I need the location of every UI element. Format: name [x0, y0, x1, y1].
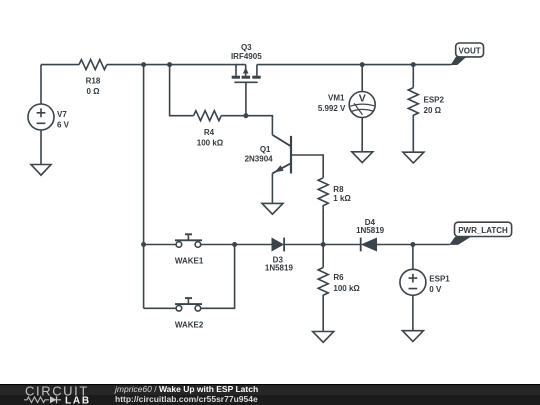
svg-text:V: V — [359, 92, 366, 104]
resistor R8 — [318, 178, 328, 209]
wire VM1 top lead — [361, 65, 363, 92]
wire ESP2 top lead — [412, 65, 414, 88]
junction node VM1 — [360, 62, 365, 67]
ground — [403, 152, 424, 163]
wire junction to D4 — [323, 244, 361, 246]
svg-text:LAB: LAB — [65, 395, 91, 405]
ground — [262, 203, 283, 214]
svg-text:V7: V7 — [57, 110, 67, 119]
wire D4 to ESP1 junction — [377, 244, 450, 246]
svg-text:100 kΩ: 100 kΩ — [333, 284, 360, 293]
wire R4 branch vertical — [170, 65, 194, 116]
wire to D3 — [235, 244, 272, 246]
svg-text:0 Ω: 0 Ω — [86, 87, 100, 96]
svg-text:2N3904: 2N3904 — [245, 155, 274, 164]
svg-text:VOUT: VOUT — [458, 47, 480, 56]
wire VM1 bottom lead — [361, 118, 363, 152]
wire ESP2 bottom lead — [412, 119, 414, 153]
node VOUT flag — [451, 43, 484, 65]
svg-text:R4: R4 — [204, 128, 215, 137]
junction node at 169.6 — [167, 62, 172, 67]
svg-text:IRF4905: IRF4905 — [231, 52, 262, 61]
voltage source V7 — [28, 104, 54, 130]
wire R4 right lead — [221, 115, 246, 117]
junction node gate/R4 — [243, 113, 248, 118]
footer bar — [0, 384, 540, 405]
svg-text:100 kΩ: 100 kΩ — [197, 139, 224, 148]
svg-text:ESP2: ESP2 — [424, 95, 445, 104]
wire R6 bottom lead — [322, 297, 324, 332]
svg-text:1N5819: 1N5819 — [265, 264, 294, 273]
diode D4 — [356, 218, 385, 252]
wire V7 top lead — [40, 65, 42, 104]
wire top rail left — [41, 64, 79, 66]
svg-text:R6: R6 — [333, 273, 344, 282]
svg-text:Q3: Q3 — [241, 43, 252, 52]
switch WAKE2 — [144, 298, 204, 329]
resistor ESP2 — [408, 88, 418, 119]
svg-text:R18: R18 — [86, 76, 101, 85]
svg-text:VM1: VM1 — [328, 93, 345, 102]
svg-text:Q1: Q1 — [260, 145, 271, 154]
wire R6 top lead — [322, 245, 324, 268]
svg-text:WAKE2: WAKE2 — [175, 320, 204, 329]
wire R8 bottom lead — [322, 209, 324, 245]
resistor R18 — [79, 60, 107, 70]
svg-text:R8: R8 — [333, 185, 344, 194]
junction node R8/R6/diodes — [321, 242, 326, 247]
svg-text:20 Ω: 20 Ω — [424, 106, 442, 115]
junction node ESP1 — [410, 242, 415, 247]
wire Q3 gate lead — [245, 82, 247, 115]
junction node WAKE1 right — [232, 242, 237, 247]
ground — [31, 165, 51, 176]
svg-text:WAKE1: WAKE1 — [175, 257, 204, 266]
switch WAKE1 — [144, 234, 235, 265]
voltage source ESP1 — [400, 269, 426, 295]
mosfet Q3 — [231, 43, 262, 83]
wire ESP1 top lead — [412, 245, 414, 270]
svg-text:ESP1: ESP1 — [429, 275, 450, 284]
voltmeter VM1 — [318, 92, 375, 118]
svg-text:1N5819: 1N5819 — [356, 226, 385, 235]
wire V7 bottom lead — [40, 130, 42, 165]
wire to Q1 collector — [246, 116, 273, 135]
wire left rail down to switches — [143, 65, 145, 309]
footer credits text — [114, 384, 258, 404]
svg-text:jmprice60 / Wake Up with ESP L: jmprice60 / Wake Up with ESP Latch — [114, 384, 258, 394]
wire top rail middle — [107, 64, 246, 66]
svg-text:5.992 V: 5.992 V — [318, 104, 346, 113]
transistor Q1 — [245, 135, 291, 174]
node PWR_LATCH flag — [449, 222, 511, 245]
junction node ESP2 — [411, 62, 416, 67]
svg-text:1 kΩ: 1 kΩ — [333, 194, 351, 203]
resistor R4 — [194, 111, 222, 121]
svg-text:6 V: 6 V — [57, 121, 70, 130]
svg-text:0 V: 0 V — [429, 285, 442, 294]
wire WAKE2 right rail — [201, 245, 235, 309]
junction node WAKE1 left — [141, 242, 146, 247]
svg-text:PWR_LATCH: PWR_LATCH — [458, 226, 508, 235]
resistor R6 — [318, 268, 328, 298]
svg-text:http://circuitlab.com/cr55sr77: http://circuitlab.com/cr55sr77u954e — [115, 394, 258, 404]
ground — [313, 332, 334, 343]
wire ESP1 bottom lead — [412, 295, 414, 330]
wire D3 to junction — [284, 244, 323, 246]
wire Q1 base lead — [291, 155, 323, 178]
wire top rail right — [257, 64, 452, 66]
junction node at 143.6 — [141, 62, 146, 67]
ground — [402, 331, 423, 342]
ground — [352, 152, 373, 163]
wire Q1 emitter lead — [271, 173, 273, 203]
footer logo CIRCUIT LAB — [24, 384, 91, 405]
diode D3 — [265, 238, 294, 273]
